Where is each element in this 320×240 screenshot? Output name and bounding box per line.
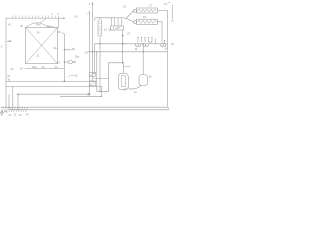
svg-text:13: 13 <box>57 60 60 64</box>
svg-text:19: 19 <box>123 4 126 8</box>
wire top rail H1 with arrow end <box>6 17 63 19</box>
heater element box HT1 <box>137 8 158 13</box>
wire vertical x18 <box>17 94 19 110</box>
svg-text:30: 30 <box>37 30 40 34</box>
svg-text:28: 28 <box>72 47 75 51</box>
svg-text:15: 15 <box>75 73 78 77</box>
leader for 29 <box>7 40 12 42</box>
wire top-right rail H2 <box>95 18 113 21</box>
connector J1 body <box>111 26 124 30</box>
svg-text:26: 26 <box>149 75 152 79</box>
wire vertical x92.4 with arrow pointer top <box>91 3 93 81</box>
wire canister feed <box>142 44 144 75</box>
ground hatching at wall <box>2 108 28 112</box>
svg-text:10: 10 <box>0 113 3 117</box>
svg-text:23: 23 <box>127 32 130 36</box>
wire compressor feed horizontals <box>109 63 123 92</box>
svg-text:21: 21 <box>11 67 14 71</box>
wire mid rail H4 <box>88 51 168 53</box>
wire mystery stub <box>124 66 130 68</box>
wire vertical x89.3 <box>88 11 90 95</box>
stub feed M3 <box>164 41 166 44</box>
svg-text:12: 12 <box>134 90 137 94</box>
wire vertical x13 <box>12 86 14 109</box>
heater element box HT2 <box>137 19 158 24</box>
dark corner smudges <box>1 111 8 114</box>
svg-text:18: 18 <box>143 15 146 19</box>
svg-text:3: 3 <box>52 13 54 16</box>
svg-text:5b: 5b <box>58 30 61 34</box>
svg-text:5a: 5a <box>54 46 57 50</box>
svg-text:31: 31 <box>7 74 10 78</box>
sensor S1 ellipse <box>68 61 73 64</box>
heater feed wires <box>124 11 133 22</box>
wire vertical x6.5 <box>8 94 10 109</box>
stub bottom of R1 joining vertical x100 <box>99 37 101 92</box>
svg-text:30a: 30a <box>36 22 41 26</box>
wire drop from H1 to box corner <box>57 18 59 27</box>
evaporator box E1 (crossed box) <box>26 28 58 64</box>
svg-text:41: 41 <box>8 23 11 27</box>
svg-text:1d: 1d <box>108 27 111 31</box>
svg-text:14: 14 <box>26 113 29 117</box>
wire HT2 right down <box>157 22 162 44</box>
svg-text:17: 17 <box>149 3 152 7</box>
svg-text:4: 4 <box>58 13 60 16</box>
svg-text:1: 1 <box>89 2 91 6</box>
wire H-a with corner down to H-c <box>6 82 97 92</box>
wire under box H6 <box>25 68 64 70</box>
svg-text:20: 20 <box>42 65 45 69</box>
leader 1a <box>167 2 170 3</box>
wire mid rail H3 <box>94 43 167 45</box>
svg-text:24: 24 <box>149 40 152 44</box>
arrowhead on vertical pointer <box>92 2 93 4</box>
connector J1 pins <box>110 18 124 26</box>
svg-text:12: 12 <box>13 113 16 117</box>
svg-text:27: 27 <box>73 60 76 64</box>
svg-text:26a: 26a <box>75 56 80 59</box>
short right margin wire <box>171 5 173 19</box>
branch wire 27 with sensor S1 <box>64 61 75 63</box>
wire vertical x94.4 from H3 down to junction box <box>93 44 95 74</box>
wire short drop to compressor <box>122 63 124 74</box>
heater H1a terminal circle <box>134 9 137 12</box>
svg-text:11: 11 <box>124 87 127 91</box>
junction X at H-d right end <box>88 93 90 95</box>
wire H-c compressor return <box>97 90 109 92</box>
leader to rail <box>40 19 46 23</box>
svg-text:11: 11 <box>8 113 11 117</box>
wire bottom rail H11 <box>1 106 168 108</box>
heater H1b terminal circle <box>134 21 137 24</box>
wire right border vertical <box>166 11 168 108</box>
motor M2 coil <box>143 44 146 47</box>
switch contact inside J1 <box>115 27 121 29</box>
wire from J1 down <box>122 30 124 63</box>
svg-text:M: M <box>135 47 138 51</box>
svg-text:31: 31 <box>37 54 40 58</box>
svg-text:18: 18 <box>20 67 23 71</box>
motor M1 coil <box>135 44 138 47</box>
junction box JB2 <box>89 81 95 86</box>
tent flag above box <box>26 23 58 28</box>
svg-text:29: 29 <box>8 39 11 43</box>
compressor CP1 body <box>118 73 128 89</box>
svg-text:40: 40 <box>20 24 23 28</box>
svg-text:16: 16 <box>104 28 107 32</box>
stub wire 28 <box>64 49 71 51</box>
wire vertical x96.8 upper <box>96 52 98 82</box>
wire H8 <box>94 77 109 79</box>
svg-text:26: 26 <box>47 24 50 28</box>
svg-text:20a: 20a <box>32 65 37 69</box>
resistor R1 ladder <box>98 20 102 37</box>
svg-text:2: 2 <box>1 45 3 49</box>
faint leader near arrow vertical <box>87 12 91 14</box>
svg-text:15: 15 <box>171 43 174 46</box>
svg-text:1b: 1b <box>171 20 174 23</box>
wire bottom rail H12 <box>9 107 168 110</box>
svg-text:16: 16 <box>7 77 10 81</box>
compressor inner terminal <box>121 76 125 87</box>
wire V4 branch vertical <box>63 34 65 82</box>
svg-text:1a: 1a <box>164 2 167 6</box>
wire H-d supply line <box>18 93 89 95</box>
motor M3 coil <box>161 44 164 47</box>
contact ticks above motor row <box>138 38 156 44</box>
tick marks on top rail <box>13 16 59 19</box>
canister C1 <box>139 75 148 86</box>
svg-text:13: 13 <box>18 113 21 117</box>
svg-text:14: 14 <box>55 65 58 69</box>
junction box JB1 <box>89 72 95 76</box>
squiggle leader 15 <box>69 75 75 76</box>
wire H-b with corner down <box>6 86 102 96</box>
svg-text:8 9: 8 9 <box>75 16 79 19</box>
wire left rail V1 <box>5 18 7 107</box>
arrowhead on H1 <box>63 17 65 19</box>
wire canister to compressor <box>129 86 142 90</box>
wire HT1 right to border <box>157 10 167 12</box>
stub top of R1 <box>99 18 101 20</box>
junction dots <box>17 28 165 97</box>
wire H-e <box>60 95 102 97</box>
